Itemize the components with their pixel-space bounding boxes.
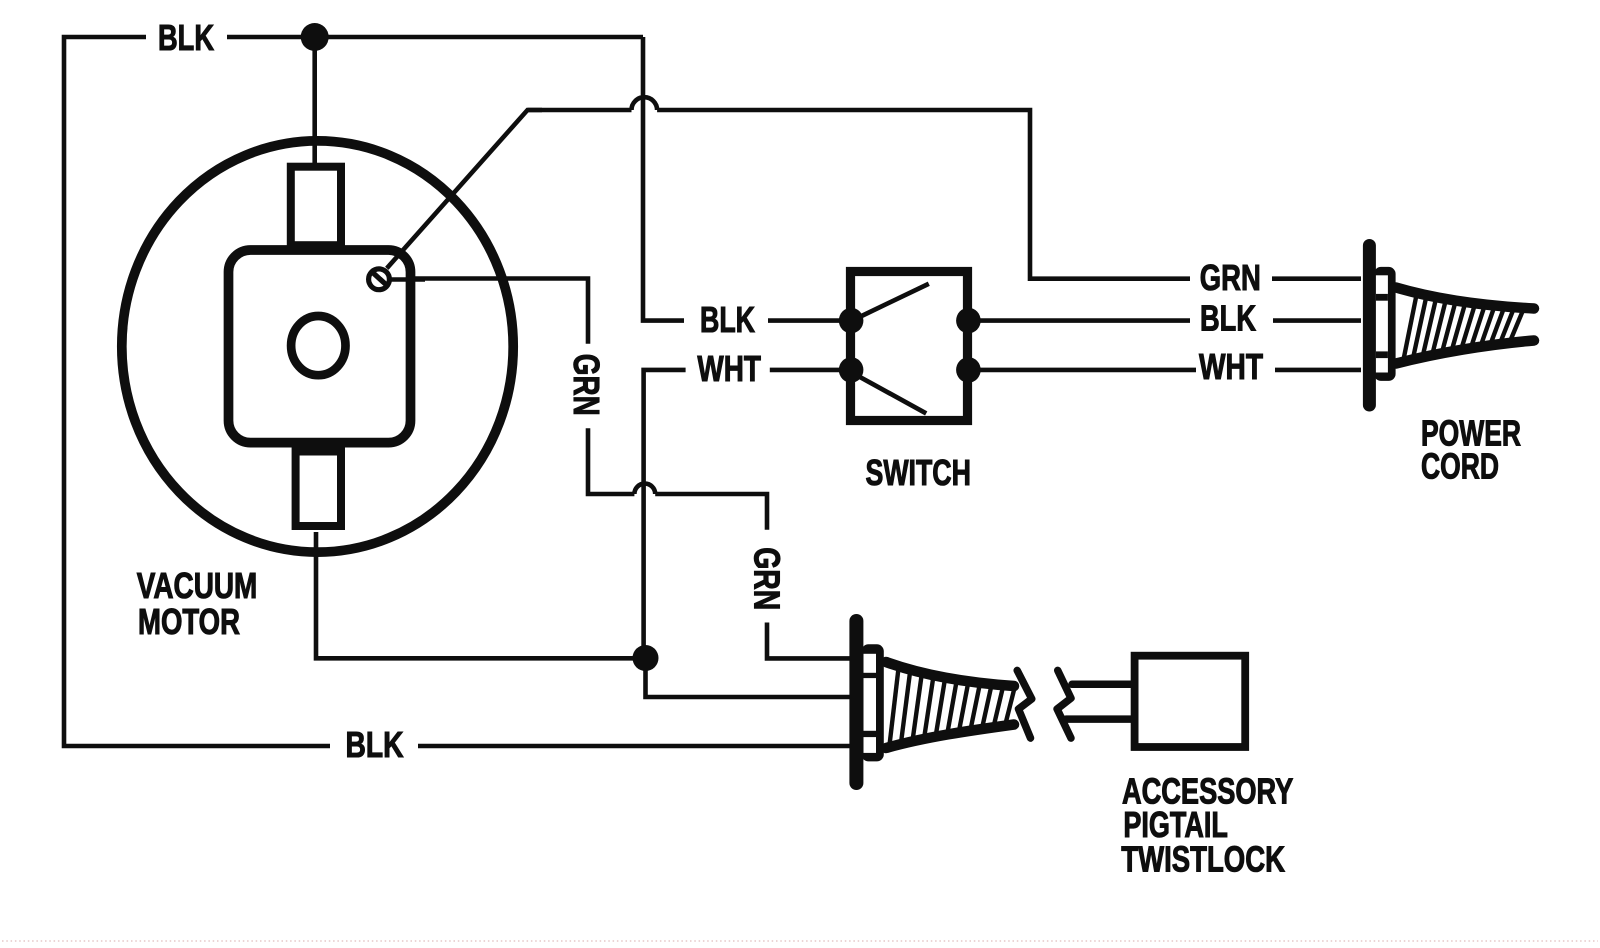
svg-text:VACUUM: VACUUM [137, 565, 257, 606]
svg-text:WHT: WHT [697, 348, 761, 389]
svg-text:CORD: CORD [1421, 446, 1499, 487]
svg-text:TWISTLOCK: TWISTLOCK [1121, 838, 1285, 879]
svg-text:BLK: BLK [700, 299, 755, 340]
svg-text:SWITCH: SWITCH [866, 452, 971, 493]
svg-text:GRN: GRN [566, 354, 607, 416]
svg-text:BLK: BLK [158, 17, 214, 58]
svg-text:MOTOR: MOTOR [138, 601, 240, 642]
svg-text:BLK: BLK [346, 724, 404, 765]
svg-text:WHT: WHT [1199, 346, 1263, 387]
svg-text:BLK: BLK [1200, 298, 1256, 339]
svg-text:GRN: GRN [1200, 257, 1261, 298]
svg-text:GRN: GRN [747, 547, 788, 610]
